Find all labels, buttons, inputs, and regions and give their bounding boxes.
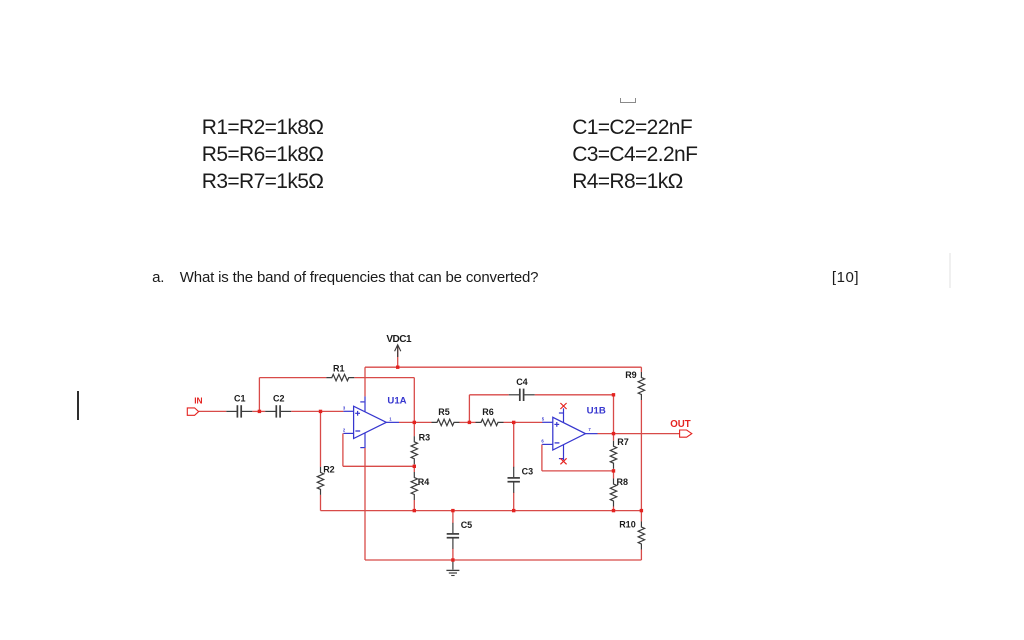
svg-text:R4: R4: [418, 477, 430, 487]
svg-text:R6: R6: [482, 407, 494, 417]
svg-text:OUT: OUT: [670, 419, 691, 430]
svg-text:C3: C3: [522, 466, 534, 476]
svg-text:1: 1: [389, 417, 392, 422]
svg-text:5: 5: [542, 417, 545, 422]
svg-text:3: 3: [343, 405, 346, 410]
svg-text:R5: R5: [438, 407, 450, 417]
svg-text:R2: R2: [323, 465, 335, 475]
svg-text:C2: C2: [273, 393, 285, 403]
svg-text:R1: R1: [333, 363, 345, 373]
svg-text:U1B: U1B: [587, 406, 606, 417]
svg-text:R10: R10: [619, 520, 636, 530]
svg-text:VDC1: VDC1: [386, 334, 412, 345]
svg-text:R7: R7: [617, 437, 629, 447]
svg-text:R3: R3: [419, 433, 431, 443]
svg-text:2: 2: [343, 428, 346, 433]
svg-text:C4: C4: [516, 377, 528, 387]
svg-text:6: 6: [541, 439, 544, 444]
svg-text:R8: R8: [617, 477, 629, 487]
svg-text:IN: IN: [194, 395, 202, 405]
svg-text:R9: R9: [625, 370, 637, 380]
svg-text:U1A: U1A: [387, 396, 406, 407]
svg-text:7: 7: [588, 427, 591, 432]
svg-text:C5: C5: [461, 520, 473, 530]
svg-text:C1: C1: [234, 393, 246, 403]
